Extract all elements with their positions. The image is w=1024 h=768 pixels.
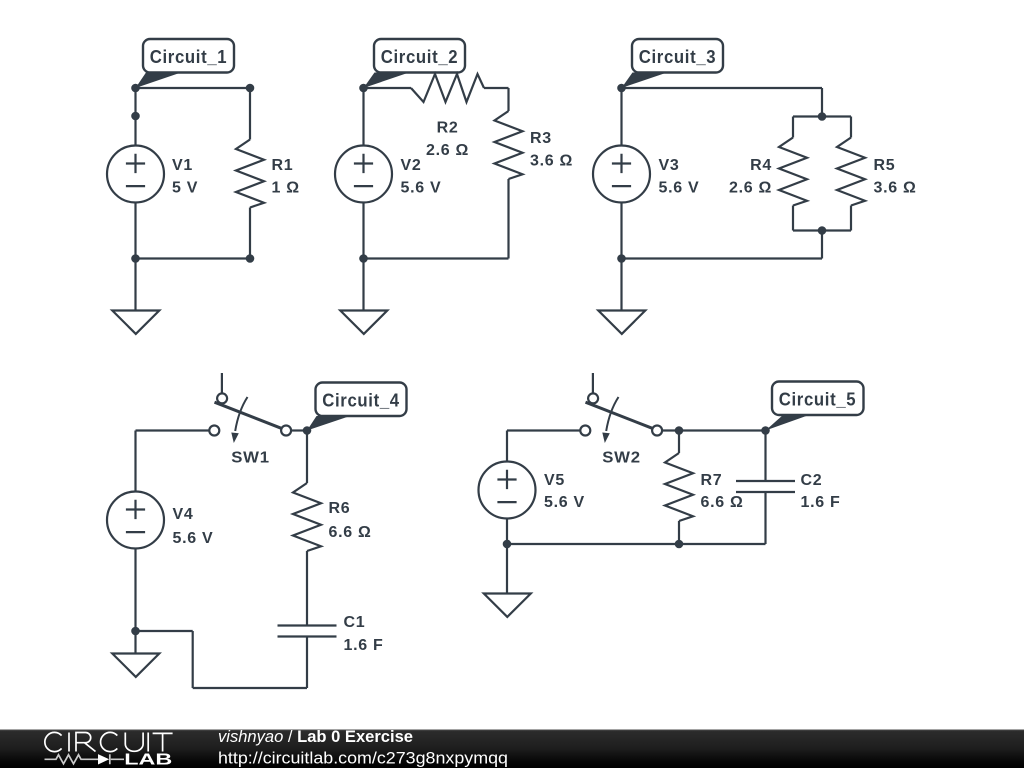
svg-text:Circuit_2: Circuit_2 — [381, 47, 459, 67]
svg-text:V4: V4 — [173, 506, 194, 523]
svg-text:5.6 V: 5.6 V — [401, 180, 442, 197]
svg-text:C2: C2 — [801, 472, 823, 489]
svg-text:2.6 Ω: 2.6 Ω — [426, 142, 469, 159]
svg-text:SW2: SW2 — [602, 450, 641, 467]
svg-text:1.6 F: 1.6 F — [801, 494, 841, 511]
svg-text:5.6 V: 5.6 V — [659, 180, 700, 197]
svg-text:1 Ω: 1 Ω — [272, 180, 300, 197]
svg-text:R6: R6 — [329, 500, 351, 517]
svg-text:R3: R3 — [530, 130, 552, 147]
svg-text:1.6 F: 1.6 F — [344, 637, 384, 654]
svg-text:Circuit_1: Circuit_1 — [150, 47, 228, 67]
svg-text:R4: R4 — [750, 157, 772, 174]
svg-text:Circuit_4: Circuit_4 — [322, 391, 400, 411]
svg-text:V1: V1 — [172, 157, 193, 174]
svg-text:3.6 Ω: 3.6 Ω — [530, 153, 573, 170]
svg-text:5.6 V: 5.6 V — [173, 530, 214, 547]
svg-text:Circuit_3: Circuit_3 — [639, 47, 717, 67]
svg-text:2.6 Ω: 2.6 Ω — [729, 180, 772, 197]
svg-text:LAB: LAB — [124, 752, 172, 768]
svg-text:vishnyao / Lab 0 Exercise: vishnyao / Lab 0 Exercise — [218, 728, 413, 746]
svg-text:V2: V2 — [401, 157, 422, 174]
svg-text:5.6 V: 5.6 V — [544, 494, 585, 511]
svg-text:V3: V3 — [659, 157, 680, 174]
svg-text:Circuit_5: Circuit_5 — [779, 390, 857, 410]
svg-text:C1: C1 — [344, 614, 366, 631]
svg-text:3.6 Ω: 3.6 Ω — [874, 180, 917, 197]
svg-text:R7: R7 — [701, 472, 723, 489]
svg-text:5 V: 5 V — [172, 180, 198, 197]
svg-text:V5: V5 — [544, 472, 565, 489]
svg-text:6.6 Ω: 6.6 Ω — [329, 524, 372, 541]
svg-text:R1: R1 — [272, 157, 294, 174]
svg-text:6.6 Ω: 6.6 Ω — [701, 494, 744, 511]
svg-text:http://circuitlab.com/c273g8nx: http://circuitlab.com/c273g8nxpymqq — [218, 750, 508, 768]
svg-text:R5: R5 — [874, 157, 896, 174]
svg-text:R2: R2 — [437, 120, 459, 137]
svg-text:SW1: SW1 — [231, 450, 270, 467]
